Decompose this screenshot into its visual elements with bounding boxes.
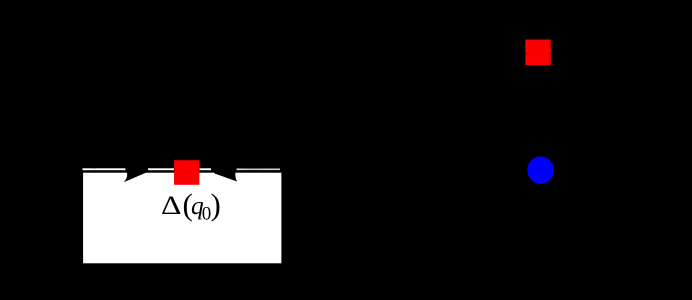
svg-text:): )	[211, 187, 221, 222]
svg-text:Δ: Δ	[161, 190, 181, 220]
